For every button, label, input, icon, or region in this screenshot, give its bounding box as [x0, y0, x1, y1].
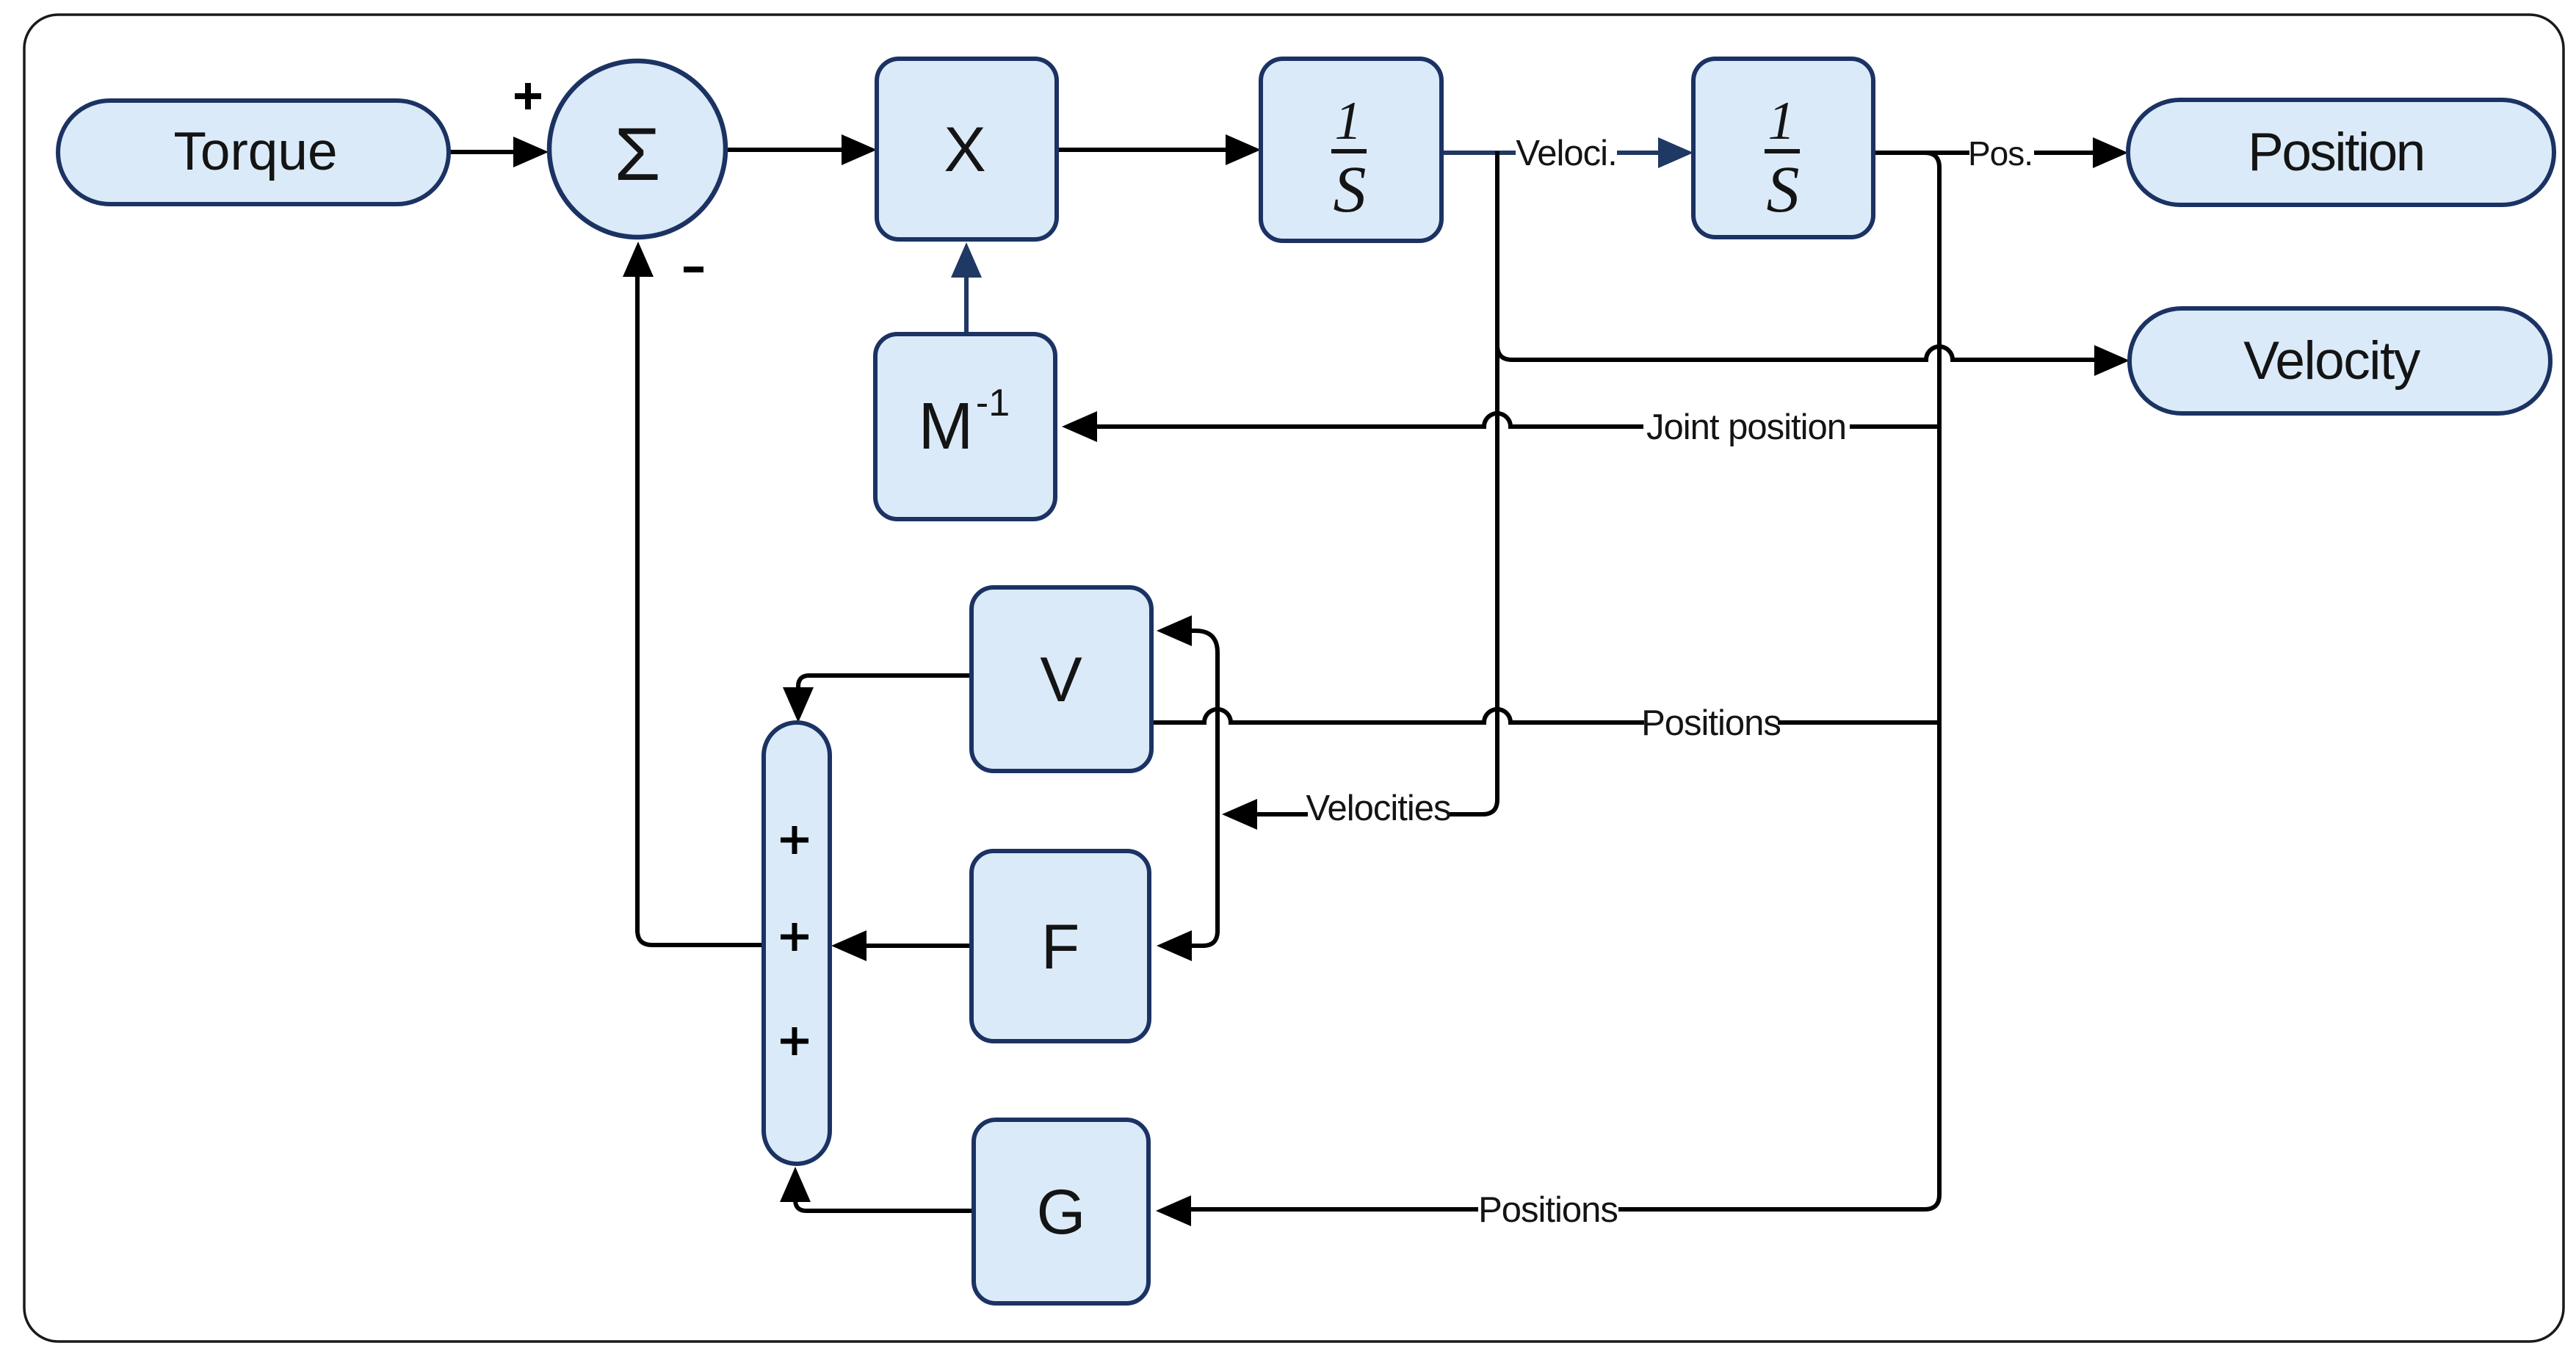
- minus sign at summer lower input: [684, 267, 703, 272]
- Torque source pill: [58, 101, 449, 204]
- wire M inverse to X (navy): [964, 276, 969, 334]
- svg-text:Positions: Positions: [1478, 1190, 1618, 1230]
- position feedback vertical line with Positions label to G: [1618, 153, 1939, 1209]
- Position output pill: [2128, 100, 2554, 205]
- svg-text:Torque: Torque: [173, 122, 337, 181]
- svg-text:-1: -1: [976, 382, 1010, 424]
- Velocity output pill: [2130, 308, 2550, 413]
- wire sum junction to X: [727, 148, 844, 152]
- svg-text:S: S: [1334, 153, 1367, 226]
- feedback wire sum pill to summer: [637, 277, 764, 945]
- svg-text:Joint position: Joint position: [1646, 408, 1846, 447]
- svg-text:1: 1: [1335, 91, 1362, 151]
- wire X to integrator 1: [1057, 148, 1229, 152]
- plus sign at summer input: [515, 83, 541, 109]
- svg-text:Veloci.: Veloci.: [1516, 134, 1616, 173]
- velocity feedback vertical line: [1448, 151, 1497, 814]
- velocity output wire to Velocity pill with hop over position line: [1497, 345, 2094, 360]
- X block: [877, 59, 1057, 239]
- velocities wire into distribution line: [1257, 812, 1308, 817]
- svg-text:Velocities: Velocities: [1306, 789, 1450, 828]
- wire integrator 1 to integrator 2 (navy) with Veloci. label: [1441, 151, 1516, 155]
- summer circle: [549, 61, 726, 237]
- distribution line with hooks into V and F: [1191, 631, 1218, 946]
- svg-text:M: M: [919, 390, 974, 463]
- F block: [972, 851, 1149, 1041]
- svg-text:Position: Position: [2248, 123, 2424, 182]
- integrator 1 block 1/S: [1261, 59, 1441, 241]
- wire Torque to sum junction: [449, 150, 515, 154]
- svg-text:F: F: [1041, 912, 1080, 982]
- svg-text:1: 1: [1768, 91, 1795, 151]
- wire F output to sum pill: [866, 944, 972, 948]
- svg-text:Σ: Σ: [614, 112, 660, 196]
- svg-text:G: G: [1037, 1177, 1086, 1248]
- wire integrator 2 to Position with Pos. label: [1873, 151, 1969, 155]
- V block: [972, 587, 1151, 771]
- joint position wire to M inverse with hop over velocity line: [1097, 413, 1643, 427]
- positions wire from V to position line with two hops: [1151, 709, 1644, 723]
- svg-text:Positions: Positions: [1641, 703, 1781, 743]
- M inverse block: [875, 334, 1055, 519]
- svg-text:Velocity: Velocity: [2243, 331, 2421, 391]
- svg-text:S: S: [1767, 153, 1800, 226]
- sum pill vertical with three plus signs: [764, 723, 830, 1164]
- svg-text:V: V: [1040, 645, 1082, 715]
- G block: [974, 1120, 1148, 1303]
- wire V output to sum pill top: [798, 676, 972, 689]
- integrator 2 block 1/S: [1693, 59, 1873, 237]
- wire G output to sum pill bottom: [795, 1200, 974, 1211]
- svg-text:Pos.: Pos.: [1968, 134, 2033, 173]
- svg-text:X: X: [944, 115, 985, 185]
